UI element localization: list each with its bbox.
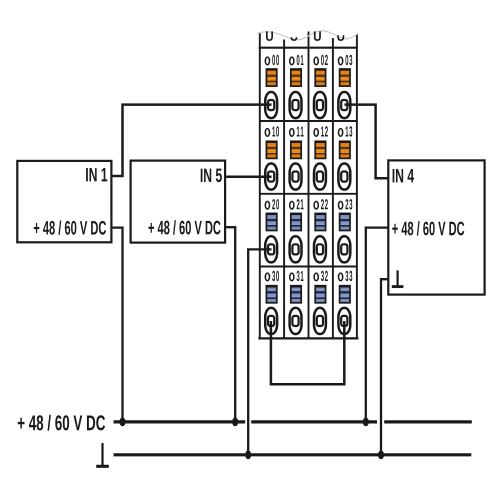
device box IN 1 [17,161,111,242]
indicator clamp 00 [266,69,276,86]
junction dot [378,450,384,459]
pin label 20 [265,199,279,209]
terminal 23 [338,236,350,262]
pin label 21 [290,199,304,209]
junction dot [363,418,369,427]
wire IN5 +48/60V to bus [225,227,235,422]
pin label 31 [290,271,304,281]
indicator clamp 11 [291,141,301,158]
indicator clamp 02 [315,69,325,86]
indicator clamp 12 [315,141,325,158]
ground symbol inside IN 4 [392,270,404,286]
indicator clamp 32 [315,286,325,303]
indicator clamp 01 [291,69,301,86]
pin label 22 [314,199,328,209]
pin label 23 [339,199,353,209]
terminal 11 [290,164,302,190]
pin label 03 [339,55,353,65]
wire IN4 ground to ground bus [381,279,389,455]
pin label 11 [290,126,304,136]
header label U col 3 [314,31,321,41]
wire IN5 signal to terminal 10 [225,176,272,179]
terminal 22 [314,236,326,262]
pin label 10 [265,126,279,136]
bus +48/60 V DC [114,420,472,423]
wire IN4 +48/60V to bus [366,228,389,422]
indicator clamp 33 [340,286,350,303]
terminal 00 [265,92,277,118]
wire terminal 20 to ground bus [248,249,271,454]
wire IN1 signal to terminal 00 [111,105,272,176]
pin label 12 [314,126,328,136]
terminal 03 [338,92,350,118]
terminal 21 [290,236,302,262]
device box IN 4 [388,160,484,294]
terminal 13 [338,164,350,190]
indicator clamp 23 [340,213,350,230]
indicator clamp 22 [315,213,325,230]
pin label 02 [314,55,328,65]
wire loop terminal 30 to terminal 33 [271,321,344,384]
terminal 30 [265,308,277,334]
wire terminal 03 to IN4 signal [345,105,389,179]
ground symbol (bus) [96,443,109,466]
indicator clamp 10 [266,141,276,158]
torn top edge wave [258,31,358,40]
wire IN1 +48/60V to bus [111,228,123,422]
indicator clamp 30 [266,286,276,303]
terminal module frame [258,32,358,339]
junction dot [232,418,238,427]
pin label 01 [290,55,304,65]
label + 48 / 60 V DC (bus) [18,415,105,431]
indicator clamp 13 [340,141,350,158]
terminal 33 [338,308,350,334]
indicator clamp 20 [266,213,276,230]
pin label 00 [265,55,279,65]
indicator clamp 21 [291,213,301,230]
terminal 12 [314,164,326,190]
terminal 20 [265,236,277,262]
header label U col 1 [266,31,273,41]
pin label 32 [314,271,328,281]
terminal 31 [290,308,302,334]
terminal 10 [265,164,277,190]
junction dot [119,418,125,427]
junction dot [245,450,251,459]
indicator clamp 31 [291,286,301,303]
terminal 32 [314,308,326,334]
pin label 30 [265,271,279,281]
bus ground [114,453,472,456]
device box IN 5 [131,161,226,243]
terminal 02 [314,92,326,118]
indicator clamp 03 [340,69,350,86]
terminal 01 [290,92,302,118]
pin label 13 [339,126,353,136]
pin label 33 [339,271,353,281]
